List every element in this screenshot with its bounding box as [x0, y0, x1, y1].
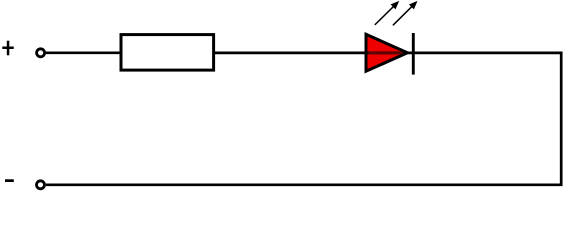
wire top run from resistor through LED to right corner, down right side, and bottom run back to negative terminal — [46, 53, 561, 185]
wire from positive terminal to resistor — [46, 51, 122, 54]
negative terminal node — [37, 181, 45, 189]
LED cathode bar — [412, 33, 415, 75]
wire crossing LED body (blended tint) — [369, 52, 404, 54]
LED D1 (red emitting diode triangle) — [366, 34, 408, 71]
resistor R1 — [121, 35, 214, 71]
label + (positive supply) — [2, 41, 13, 56]
positive terminal node — [37, 49, 45, 57]
light emission arrow 2 — [393, 1, 418, 25]
light emission arrow 1 — [375, 1, 399, 25]
label - (negative supply) — [5, 179, 14, 182]
